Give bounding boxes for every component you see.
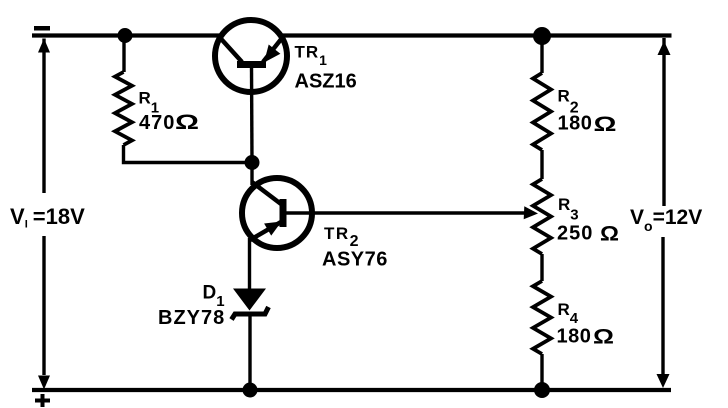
- svg-text:ASZ16: ASZ16: [295, 71, 357, 93]
- svg-text:180: 180: [557, 326, 592, 348]
- wire: D1 cathode to bottom rail: [248, 315, 251, 390]
- node: input top terminal arrow: [38, 39, 50, 53]
- transistor TR2 base bar (vertical): [280, 199, 287, 227]
- wire: R1 bottom to base junction: [124, 145, 253, 163]
- node: tap arrow into R3: [524, 206, 538, 219]
- node: output bottom terminal arrow: [657, 374, 670, 388]
- svg-text:ASY76: ASY76: [322, 249, 388, 271]
- wire: left input lead upper segment: [42, 39, 45, 194]
- svg-text:Ω: Ω: [600, 223, 619, 246]
- node: junction dot R1 / TR1 base / TR2 collector: [245, 155, 260, 170]
- transistor TR2 collector diagonal: [252, 182, 281, 204]
- svg-text:Vo=12V: Vo=12V: [630, 206, 702, 234]
- svg-text:250: 250: [557, 223, 593, 245]
- terminal plus sign (bottom-left input polarity): [35, 399, 50, 403]
- transistor TR1 collector diagonal (right) with PNP arrow: [263, 36, 284, 63]
- resistor R2 zigzag: [533, 73, 551, 150]
- node: junction dot top rail / R2: [533, 27, 551, 45]
- svg-text:TR1: TR1: [295, 43, 328, 69]
- wire: bottom positive rail: [32, 388, 671, 392]
- wire: right output lead lower segment: [661, 237, 664, 375]
- svg-text:R3: R3: [558, 195, 579, 224]
- svg-text:Ω: Ω: [594, 113, 617, 136]
- node: junction dot top rail / R1: [118, 28, 133, 43]
- transistor TR2 emitter diagonal with PNP arrow: [250, 222, 281, 240]
- node: junction dot R4 / bottom rail: [534, 382, 550, 398]
- node: input bottom terminal arrow: [38, 376, 50, 390]
- wire: TR2 base lead to R3 tap: [283, 211, 526, 214]
- wire: TR1 base lead down to junction: [250, 66, 254, 163]
- svg-text:TR2: TR2: [324, 224, 360, 250]
- svg-text:VI=18V: VI=18V: [10, 204, 85, 231]
- terminal minus sign (top-left input polarity): [34, 26, 50, 31]
- wire: R2 top stub: [540, 36, 543, 73]
- wire: TR2 emitter down to D1: [248, 238, 251, 290]
- resistor R1 zigzag: [115, 72, 132, 145]
- transistor TR2 circle: [242, 178, 312, 248]
- node: junction dot D1 / bottom rail: [243, 383, 258, 398]
- transistor TR1 base bar: [237, 61, 266, 68]
- svg-text:180: 180: [558, 113, 593, 135]
- diode D1 zener triangle: [233, 289, 266, 311]
- wire: left input lead lower segment: [42, 236, 45, 375]
- wire: TR2 collector stub: [250, 163, 253, 186]
- svg-text:BZY78: BZY78: [158, 307, 225, 329]
- wire: top negative rail right of TR1: [282, 33, 672, 37]
- wire: top negative rail left of TR1: [32, 33, 220, 37]
- transistor TR1 circle: [215, 20, 287, 92]
- transistor TR1 emitter diagonal (left): [218, 36, 242, 63]
- wire: right output lead upper segment: [662, 38, 665, 206]
- svg-text:Ω: Ω: [175, 111, 199, 134]
- diode D1 zener cathode bar with hooks: [232, 307, 269, 320]
- resistor R3 zigzag: [533, 179, 551, 254]
- wire: R1 top stub: [122, 36, 125, 73]
- wire: R2-R3 link: [540, 150, 543, 179]
- resistor R4 zigzag: [533, 281, 551, 354]
- wire: R4 bottom stub: [540, 354, 543, 390]
- svg-text:D1: D1: [203, 283, 225, 311]
- node: output top terminal arrow: [658, 41, 671, 55]
- svg-text:470: 470: [139, 112, 175, 134]
- svg-text:R4: R4: [558, 300, 579, 327]
- wire: R3-R4 link: [540, 254, 543, 281]
- svg-text:Ω: Ω: [593, 326, 614, 349]
